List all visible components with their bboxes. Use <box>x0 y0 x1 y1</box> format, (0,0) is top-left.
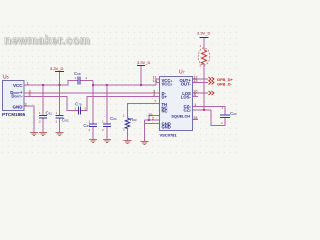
svg-text:R63: R63 <box>130 117 137 122</box>
capacitor C70 <box>79 107 81 115</box>
U7 left pin text <box>162 78 191 130</box>
svg-text:PTCM1865: PTCM1865 <box>2 112 26 117</box>
wire 3.3V mid stem <box>140 66 142 85</box>
junction dots <box>42 84 205 121</box>
ground U5 <box>30 133 38 136</box>
resistor R63 <box>125 118 129 128</box>
wire C62 drop <box>59 85 61 116</box>
svg-text:VSC0781: VSC0781 <box>160 133 178 138</box>
svg-text:GND: GND <box>162 125 171 130</box>
svg-text:VCC: VCC <box>13 83 23 88</box>
power bar 3.3V topright <box>200 37 209 39</box>
wire R pullup vertical <box>203 64 205 111</box>
svg-text:LOS-: LOS- <box>181 94 192 99</box>
watermark <box>4 35 90 47</box>
wire SQUELCH <box>149 116 160 121</box>
wire C63 to gnd <box>92 127 94 140</box>
svg-text:C62: C62 <box>62 118 69 123</box>
wire 3.3V rail <box>93 84 156 86</box>
svg-text:VCC2: VCC2 <box>162 82 173 87</box>
IC U5 box <box>3 81 25 111</box>
svg-text:3.3V_D: 3.3V_D <box>50 66 63 71</box>
wire LOS- stub <box>192 96 198 98</box>
wire C70 to D+ <box>81 97 160 111</box>
svg-text:NC: NC <box>162 109 168 114</box>
wire CZ loop bottom <box>211 110 225 126</box>
wire C61 to gnd <box>42 118 44 132</box>
ground C61 <box>39 133 47 136</box>
port arrow GFB_D- <box>209 81 215 85</box>
svg-text:14: 14 <box>153 78 158 83</box>
svg-text:GND: GND <box>13 104 24 109</box>
wire pin18 stub <box>192 119 198 121</box>
svg-text:OUT-: OUT- <box>181 82 192 87</box>
wire CZ1 to cap <box>192 107 225 116</box>
power bar 3.3V mid <box>137 65 145 67</box>
capacitor C60 <box>220 115 230 118</box>
svg-text:C61: C61 <box>46 111 53 116</box>
power bar 3.3V left <box>55 71 64 73</box>
cap pin numbers tiny <box>39 44 224 132</box>
wire C64 drop <box>106 85 108 124</box>
wire GND pins U7 <box>145 120 160 142</box>
wire after cap C68 <box>81 80 94 82</box>
ground C62 <box>56 133 64 136</box>
svg-text:C64: C64 <box>110 116 117 121</box>
U7 pin numbers <box>148 74 198 120</box>
port arrow LOS <box>209 91 215 95</box>
resistor R64 pullup <box>202 50 207 65</box>
ground C63 <box>89 140 97 143</box>
svg-text:GFB_D-: GFB_D- <box>217 81 233 86</box>
wire OUT+ <box>192 78 208 80</box>
wire TH to R63 <box>128 104 160 119</box>
ground R63 <box>124 141 132 144</box>
wire 3.3V top right stem <box>203 38 205 50</box>
wire LOS <box>192 92 208 94</box>
ground U7 <box>141 142 149 145</box>
pin numbers U5 <box>25 80 32 106</box>
svg-text:D+: D+ <box>162 94 168 99</box>
svg-text:13: 13 <box>193 78 198 83</box>
wire 3.3V left stem <box>59 72 61 85</box>
wire GND U5 <box>24 106 34 132</box>
svg-text:DOUT-: DOUT- <box>11 93 23 98</box>
svg-text:CZ2: CZ2 <box>184 107 192 112</box>
wire R63 to gnd <box>127 129 129 141</box>
IC U7 box <box>160 77 193 131</box>
svg-text:3.3V_D: 3.3V_D <box>197 31 210 36</box>
wire C62 to gnd <box>59 118 61 132</box>
capacitor C64 <box>103 124 111 127</box>
wire C63 drop <box>92 81 94 125</box>
wire OUT- <box>192 82 208 84</box>
wire DOUT- to cap C70 <box>24 97 78 111</box>
wire CZ2 <box>192 109 211 111</box>
capacitor C63 <box>89 124 97 127</box>
capacitor C68 <box>78 77 80 85</box>
wire C61 drop <box>42 85 44 116</box>
svg-text:18: 18 <box>193 115 198 120</box>
capacitor C61 <box>39 116 47 119</box>
svg-text:SQUELCH: SQUELCH <box>171 115 190 119</box>
U7 right pin text <box>180 78 192 112</box>
svg-text:C60: C60 <box>230 111 237 116</box>
port arrow GFB_D+ <box>209 77 215 81</box>
capacitor C62 <box>56 116 64 119</box>
svg-text:3.3V_D: 3.3V_D <box>137 60 150 65</box>
ground C64 <box>103 140 111 143</box>
wire C64 to gnd <box>106 127 108 140</box>
wire DOUT+ to D- <box>24 92 160 94</box>
highlight ellipse <box>198 48 210 65</box>
wire vcc step to pins <box>156 79 160 85</box>
wire VCC pin1 U5 <box>24 81 78 86</box>
